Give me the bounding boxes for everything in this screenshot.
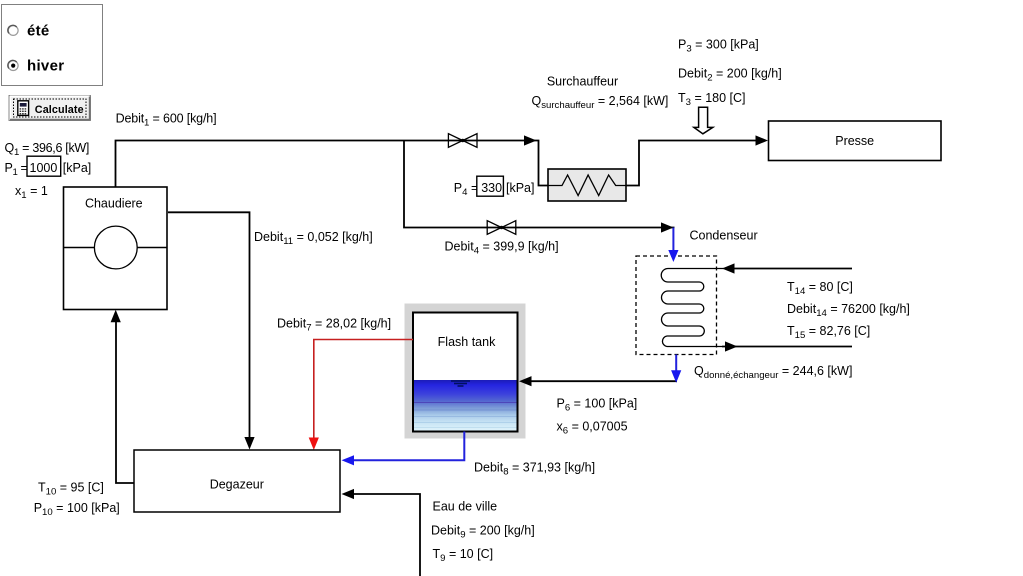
svg-text:330: 330 [481, 181, 502, 195]
svg-text:Chaudiere: Chaudiere [85, 196, 143, 210]
svg-text:Presse: Presse [835, 134, 874, 148]
svg-text:Flash tank: Flash tank [438, 335, 496, 349]
svg-text:1000: 1000 [30, 161, 58, 175]
svg-text:Calculate: Calculate [35, 104, 84, 116]
svg-text:été: été [27, 22, 50, 39]
svg-text:[kPa]: [kPa] [63, 161, 92, 175]
svg-text:Surchauffeur: Surchauffeur [547, 75, 618, 89]
svg-text:Condenseur: Condenseur [690, 229, 758, 243]
svg-text:[kPa]: [kPa] [506, 181, 535, 195]
svg-text:Degazeur: Degazeur [210, 478, 264, 492]
svg-text:hiver: hiver [27, 58, 64, 75]
svg-text:Eau de ville: Eau de ville [433, 500, 498, 514]
